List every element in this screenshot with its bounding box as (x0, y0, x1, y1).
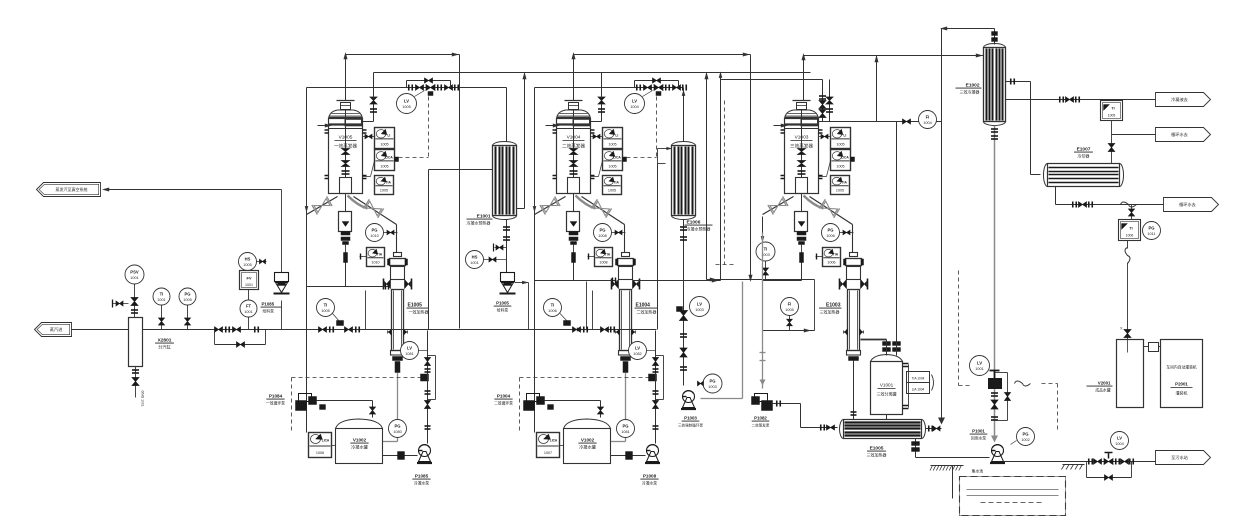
E1007 left drain (1055, 187, 1057, 205)
V1001 bottom to E1005 (886, 415, 888, 420)
LV instrument circle (397, 94, 417, 114)
svg-text:1006: 1006 (826, 234, 834, 238)
effect1 drain into heater E1005 (346, 286, 390, 288)
svg-text:1010: 1010 (370, 234, 378, 238)
svg-text:给料泵: 给料泵 (263, 309, 275, 314)
svg-text:TIA: TIA (377, 252, 383, 256)
V1005 bottom cone and sight glass (345, 194, 347, 212)
PG circle at heater (594, 224, 612, 242)
svg-text:PSV: PSV (130, 270, 139, 275)
svg-text:V1001: V1001 (880, 383, 894, 388)
svg-text:P1008: P1008 (643, 474, 657, 479)
TI-1001 (153, 288, 170, 305)
ground hatch right (1063, 464, 1085, 466)
svg-text:三效加热器: 三效加热器 (820, 309, 840, 315)
control valve on feed branch (337, 321, 344, 326)
feed line continues to effect2 (458, 329, 657, 331)
forced circulation heater E1004 (624, 225, 626, 253)
svg-text:1005: 1005 (836, 143, 844, 147)
svg-text:TI: TI (1129, 227, 1132, 231)
tank level instrument box (309, 433, 332, 458)
svg-text:二效蒸发泵: 二效蒸发泵 (752, 423, 770, 428)
V1005 shoulder feed pipe (373, 73, 375, 122)
FT-1001 flow transmitter (240, 300, 257, 317)
ground hatch left (931, 465, 964, 467)
vent drop line x941 (941, 29, 943, 422)
P1003 discharge gray riser (701, 398, 743, 400)
E1007 top-right nozzle riser (1111, 135, 1113, 164)
vent valves left of drum top (113, 303, 129, 305)
svg-text:1004: 1004 (923, 121, 931, 125)
forced circulation heater E1005 (396, 225, 398, 253)
svg-text:1011: 1011 (1147, 232, 1155, 236)
effect3 station vertical valves (822, 80, 824, 122)
svg-text:三效强制循环泵: 三效强制循环泵 (678, 423, 704, 428)
V1005 feed arrow (318, 125, 329, 127)
E1001 condensate bottom (506, 220, 508, 273)
svg-text:冷凝液去: 冷凝液去 (1171, 96, 1188, 103)
svg-text:LICA: LICA (613, 155, 621, 159)
svg-text:LICA: LICA (322, 439, 330, 443)
svg-text:P1085: P1085 (415, 474, 429, 479)
LV-1001 (970, 356, 990, 376)
E1007 right side down to V2001 (1131, 205, 1133, 220)
circulation pump P1004 (527, 394, 540, 402)
E1001 feed line from steam line (429, 169, 493, 171)
gray condensate drop from E1002 (994, 126, 996, 441)
circulating water return upper flag (1111, 121, 1113, 135)
svg-text:V1002: V1002 (353, 438, 367, 443)
pump riser to vent flag (281, 190, 283, 273)
V1004 center pipe (573, 110, 575, 178)
funnel drain line (535, 280, 574, 282)
svg-text:蒸汽进: 蒸汽进 (50, 326, 63, 333)
svg-text:分汽缸: 分汽缸 (158, 344, 171, 351)
svg-text:冷凝水罐: 冷凝水罐 (351, 444, 369, 451)
svg-text:HS: HS (245, 257, 251, 262)
condensate tank V1002 (564, 419, 611, 429)
svg-text:1005: 1005 (785, 308, 793, 312)
drop to V1001 x896 (896, 122, 898, 342)
V1004 discharge diagonals with angle valves (535, 197, 566, 215)
condensate pump P1008 (647, 445, 659, 457)
svg-text:X2801: X2801 (158, 338, 172, 344)
svg-text:PG: PG (827, 228, 833, 233)
V1004 wall nozzles (553, 129, 557, 131)
svg-text:冷凝水泵: 冷凝水泵 (642, 481, 657, 486)
evaporator vessel V1004 (565, 100, 583, 102)
E1003 side nozzles (841, 280, 847, 289)
TIA box small (595, 248, 613, 267)
vapor line effect3 y55 to E1002 (804, 55, 984, 57)
svg-text:LICA: LICA (550, 439, 558, 443)
svg-text:1008: 1008 (598, 234, 606, 238)
svg-text:1005: 1005 (380, 189, 388, 193)
svg-text:TI: TI (551, 303, 555, 308)
left drain leg (306, 88, 308, 433)
svg-text:三效加热器: 三效加热器 (867, 452, 887, 458)
TI-1005 (317, 299, 335, 317)
condensate return riser with valves (655, 331, 657, 444)
E1006 condensate bottom line down to P1003 (683, 220, 685, 386)
svg-text:一效循环泵: 一效循环泵 (266, 401, 285, 406)
svg-text:HS: HS (472, 255, 478, 260)
condensate tank V1002 (336, 419, 383, 429)
vent flag to vacuum (105, 189, 282, 191)
effect3 drain header y280 (707, 279, 815, 281)
svg-text:LV: LV (407, 346, 412, 351)
svg-text:三效冷凝器: 三效冷凝器 (960, 89, 980, 95)
LV control valve station (307, 87, 507, 89)
steam line block valves + bypass (215, 327, 223, 333)
forced circulation heater E1003 (852, 225, 854, 253)
svg-text:蒸发汽至真空系统: 蒸发汽至真空系统 (56, 186, 88, 192)
TIA box small (367, 248, 385, 267)
tank outlet to condensate pump (611, 455, 646, 457)
pump discharge line (317, 400, 373, 402)
svg-text:冷凝水预热器: 冷凝水预热器 (687, 226, 711, 232)
svg-text:TI: TI (764, 247, 768, 252)
svg-text:TIA: TIA (386, 180, 392, 184)
svg-text:1006: 1006 (1126, 234, 1134, 238)
svg-text:LI: LI (615, 133, 618, 137)
V1003 center pipe (801, 110, 803, 178)
svg-text:灌装机: 灌装机 (1176, 390, 1188, 396)
svg-text:三效分离罐: 三效分离罐 (877, 391, 897, 397)
feed branch up to effect1 shoulder (365, 291, 367, 330)
E1005 side nozzles (385, 280, 391, 289)
svg-text:E1006: E1006 (687, 220, 701, 226)
valve stack above P1001 (989, 379, 1002, 389)
gray condensate drop from heater (397, 373, 399, 442)
E1003 shell (848, 290, 860, 351)
PG-1005 (179, 288, 196, 305)
svg-text:PG: PG (184, 292, 190, 297)
svg-text:P2001: P2001 (1175, 382, 1188, 387)
svg-text:LV: LV (404, 99, 409, 104)
svg-text:TI: TI (1111, 107, 1114, 111)
svg-text:成品水罐: 成品水罐 (1095, 388, 1110, 393)
tank outlet to condensate pump (383, 455, 418, 457)
station2 drop into E1006 top (683, 88, 685, 142)
tee riser to effect2 drain header (586, 282, 588, 330)
svg-text:1004: 1004 (1115, 442, 1123, 446)
svg-text:TIA: TIA (842, 180, 848, 184)
left drain leg (762, 217, 764, 281)
svg-text:1005: 1005 (321, 309, 329, 313)
condensate pump P1085 (419, 445, 431, 457)
PG circle at heater (366, 224, 384, 242)
P1082 discharge to E1005 (772, 403, 801, 405)
V1004 bottom cone and sight glass (573, 194, 575, 212)
svg-text:1005: 1005 (608, 165, 616, 169)
station drop into E1001 top (506, 88, 508, 142)
svg-text:V2001: V2001 (1098, 381, 1111, 386)
svg-text:至污水站: 至污水站 (1171, 454, 1188, 461)
svg-text:PG: PG (709, 379, 715, 384)
E1001 right nozzle (517, 208, 525, 210)
recycle pump P1001 (992, 445, 1004, 457)
svg-text:FT: FT (246, 304, 252, 309)
svg-text:1005: 1005 (608, 143, 616, 147)
gray condensate from E1006 to P1082 (762, 233, 764, 389)
line to FI flow meter y121 (823, 121, 942, 123)
bypass below (1086, 462, 1088, 478)
svg-text:1005: 1005 (183, 298, 191, 302)
V1003 discharge diagonals with angle valves (763, 197, 794, 215)
svg-text:PG: PG (622, 424, 628, 429)
TIA box small (823, 248, 841, 267)
tank level instrument box (537, 433, 560, 458)
V1003 shoulder feed pipe (829, 80, 831, 122)
dashed level signal (520, 377, 652, 379)
feed line valves near effect1 (319, 327, 327, 333)
TI-1003 (756, 242, 775, 261)
LV circle on riser (401, 342, 419, 360)
evaporator vessel V1003 (793, 100, 811, 102)
svg-text:1006: 1006 (316, 451, 324, 455)
svg-text:TIA: TIA (833, 252, 839, 256)
svg-text:LV: LV (697, 302, 702, 307)
svg-text:LICA: LICA (841, 155, 849, 159)
E1002 vent top (994, 29, 996, 45)
dashed signal to LV1001 (958, 271, 960, 386)
svg-text:LV: LV (1117, 436, 1122, 441)
HS-1005 hand switch (239, 253, 257, 271)
svg-text:GNG 1001: GNG 1001 (141, 391, 145, 407)
svg-text:FI: FI (926, 115, 930, 120)
svg-text:冷却器: 冷却器 (1078, 153, 1090, 159)
svg-text:1006: 1006 (827, 261, 835, 265)
pump discharge waste line (1004, 461, 1087, 463)
svg-text:P1005: P1005 (496, 301, 509, 306)
pit suction line y457 (916, 457, 990, 459)
PG circle at heater (822, 224, 840, 242)
svg-text:TI: TI (160, 292, 164, 297)
svg-text:E1007: E1007 (1077, 147, 1091, 153)
dashed to LV1004 (1042, 383, 1058, 385)
PG circle on drain (389, 420, 407, 438)
E1005 right outlet (926, 428, 942, 430)
PG circle on drain (617, 420, 635, 438)
E1002 condensate line y99 (1006, 99, 1156, 101)
steam inlet flag (35, 323, 72, 337)
effect3 product line y330 (763, 330, 815, 332)
E1004 side nozzles (613, 280, 619, 289)
dashed level signal (292, 377, 424, 379)
svg-text:LV: LV (977, 361, 982, 366)
HS circle at P1005 (466, 251, 484, 269)
svg-text:1002: 1002 (1021, 438, 1029, 442)
feed riser into E1006 with entry loop (657, 164, 659, 330)
svg-text:LI: LI (843, 133, 846, 137)
gray condensate drop from heater (625, 373, 627, 442)
evaporator vessel V1005 (337, 100, 355, 102)
svg-text:E1001: E1001 (477, 214, 491, 220)
FI-1004 flow indicator (919, 111, 937, 129)
instrument boxes LIA/LICA/TIA (603, 128, 623, 149)
svg-text:冷凝水罐: 冷凝水罐 (579, 444, 597, 451)
svg-text:1003: 1003 (708, 385, 716, 389)
svg-text:车间内自动灌装机: 车间内自动灌装机 (1166, 365, 1197, 370)
svg-text:1005: 1005 (243, 263, 251, 267)
E1005 bottom-right drain (915, 439, 917, 458)
svg-text:TIA 1004: TIA 1004 (912, 377, 925, 381)
svg-text:循环水去: 循环水去 (1171, 131, 1188, 138)
svg-text:LV: LV (632, 99, 637, 104)
svg-text:1001: 1001 (130, 276, 138, 280)
svg-text:E1003: E1003 (826, 303, 841, 309)
svg-text:1003: 1003 (695, 308, 703, 312)
svg-text:LIA 1004: LIA 1004 (912, 388, 925, 392)
svg-text:二效加热器: 二效加热器 (637, 309, 657, 315)
E1003 drain down to E1005 (853, 361, 855, 420)
E1004 shell (620, 290, 632, 351)
svg-text:P1001: P1001 (972, 429, 985, 434)
LV control valve on condensate line (680, 311, 688, 321)
svg-text:E1005: E1005 (408, 303, 423, 309)
svg-text:LV: LV (635, 346, 640, 351)
V1005 bottom outlet (340, 178, 352, 194)
FI-1005 (781, 298, 799, 316)
E1005 left top nozzle (851, 411, 857, 413)
funnel drain line (763, 280, 802, 282)
svg-text:P1085: P1085 (262, 302, 275, 307)
TIA box on condensate line (1101, 101, 1123, 121)
V1003 feed arrow (774, 125, 785, 127)
P1005 discharge to feed line (515, 282, 529, 284)
signal dashed to LV station (399, 157, 429, 159)
TIA box + PG circle (1119, 220, 1141, 241)
transfer to P2001 (1149, 343, 1159, 352)
riser x876 from y121 to y55 (876, 56, 878, 122)
V1003 bottom cone and sight glass (801, 194, 803, 212)
vapor line effect1 y54 (346, 54, 460, 56)
svg-text:1008: 1008 (599, 261, 607, 265)
V1005 center pipe (345, 110, 347, 178)
svg-text:1081: 1081 (621, 430, 629, 434)
svg-text:E1005: E1005 (870, 446, 884, 452)
svg-text:TIA: TIA (605, 252, 611, 256)
V1001 instrument boxes (907, 372, 930, 383)
pit water level lines (967, 489, 1059, 491)
collection pit dashed (960, 477, 1066, 516)
FV-1001 control valve box (240, 271, 259, 290)
vapor line effect2 y54 (574, 54, 751, 56)
svg-text:1004: 1004 (630, 105, 638, 109)
PG-1002 (1017, 428, 1035, 446)
svg-text:FV: FV (246, 276, 251, 281)
svg-text:1001: 1001 (975, 367, 983, 371)
V1004 shoulder feed pipe (601, 73, 603, 122)
distillate flag (1156, 93, 1211, 107)
svg-text:TIA: TIA (614, 180, 620, 184)
svg-text:1001: 1001 (157, 298, 165, 302)
svg-text:1005: 1005 (402, 105, 410, 109)
svg-text:1005: 1005 (380, 143, 388, 147)
feed pump P1085 inline (275, 273, 289, 282)
svg-text:P1084: P1084 (269, 394, 283, 399)
svg-text:冷凝水泵: 冷凝水泵 (414, 481, 429, 486)
svg-text:LICA: LICA (385, 155, 393, 159)
E1005 shell (392, 290, 404, 351)
dashed signal effect3 (724, 101, 726, 265)
pump P1003 circulation (683, 391, 695, 403)
svg-text:1005: 1005 (608, 189, 616, 193)
instrument boxes LIA/LICA/TIA (831, 128, 851, 149)
svg-text:1005: 1005 (836, 165, 844, 169)
V1001 side nozzles (903, 363, 909, 365)
svg-text:1006: 1006 (548, 309, 556, 313)
pump P1005 (501, 273, 515, 282)
circulation pump P1084 (299, 394, 312, 402)
svg-text:1007: 1007 (544, 451, 552, 455)
left drain leg (534, 88, 536, 433)
svg-text:1080: 1080 (393, 430, 401, 434)
line down with break to V2001 (1127, 241, 1129, 249)
svg-text:回用水泵: 回用水泵 (971, 436, 986, 441)
secondary steam header y72 (374, 72, 811, 74)
svg-text:PG: PG (1022, 432, 1028, 437)
pump discharge line (545, 400, 601, 402)
svg-text:P1003: P1003 (684, 416, 697, 421)
LV circle on riser (629, 342, 647, 360)
condensate return riser with valves (427, 331, 429, 444)
svg-text:PG: PG (394, 424, 400, 429)
LV control valve station (535, 87, 684, 89)
E1002 right nozzle to E1007 (1006, 81, 1031, 83)
svg-text:1081: 1081 (405, 352, 413, 356)
V1005 wall nozzles (325, 129, 329, 131)
svg-text:V1002: V1002 (581, 438, 595, 443)
svg-text:FI: FI (788, 302, 792, 307)
filling machine P2001 (1161, 340, 1203, 408)
svg-text:LI: LI (387, 133, 390, 137)
svg-text:1005: 1005 (836, 189, 844, 193)
PSV-1001 relief valve circle (125, 265, 144, 284)
riser from effect3 drain to header (706, 73, 708, 280)
svg-text:1001: 1001 (470, 261, 478, 265)
svg-text:冷凝水预热器: 冷凝水预热器 (467, 220, 491, 226)
svg-text:循环水去: 循环水去 (1179, 201, 1196, 208)
svg-text:TI: TI (324, 303, 328, 308)
svg-text:1005: 1005 (380, 165, 388, 169)
svg-text:E1004: E1004 (636, 303, 651, 309)
svg-text:P1004: P1004 (497, 394, 511, 399)
signal dashed to LV station (627, 157, 657, 159)
z-jog to effect3 station (720, 73, 722, 80)
V1005 discharge diagonals with angle valves (307, 197, 338, 215)
LV-1003 circle (690, 297, 710, 317)
V1003 wall nozzles (781, 129, 785, 131)
svg-text:集水池: 集水池 (972, 469, 984, 474)
svg-text:PG: PG (599, 228, 605, 233)
instrument boxes LIA/LICA/TIA (375, 128, 395, 149)
waste valves + LV-1004 (1087, 461, 1156, 463)
svg-text:1001: 1001 (245, 283, 253, 287)
svg-text:给料泵: 给料泵 (497, 308, 509, 313)
V1003 bottom outlet (796, 178, 808, 194)
main steam line to effects (143, 329, 458, 331)
effect2 drain header to riser x720 (574, 280, 617, 282)
svg-text:P1082: P1082 (754, 416, 767, 421)
V1004 bottom outlet (568, 178, 580, 194)
svg-text:一效加热器: 一效加热器 (409, 309, 429, 315)
LV instrument circle (625, 94, 645, 114)
svg-text:PG: PG (1148, 226, 1154, 231)
svg-text:1005: 1005 (1108, 114, 1116, 118)
svg-text:PG: PG (371, 228, 377, 233)
